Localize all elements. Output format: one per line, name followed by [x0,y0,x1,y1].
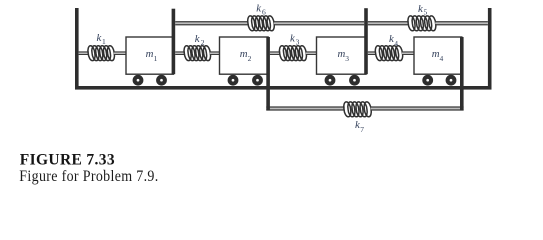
label m2 [240,48,252,63]
top rod from spring k6 to post m3 [274,22,365,25]
caption figure description [19,168,158,185]
mass m2 [220,37,269,74]
mass m3 [317,37,367,74]
bottom rod from spring k7 to post m4 [371,107,464,110]
wall left [75,8,79,90]
post on mass m3 (top frame attachment) [364,8,368,74]
caption figure number [20,152,115,169]
floor [75,86,492,90]
label m1 [146,48,158,63]
spring k3 connector left [270,52,280,55]
label k6 [256,3,266,17]
svg-text:1: 1 [154,54,158,63]
svg-text:6: 6 [262,8,266,17]
wall right [488,8,492,90]
svg-text:k: k [97,32,102,44]
post on mass m1 (top frame attachment) [172,9,176,75]
svg-text:k: k [389,33,394,45]
svg-text:Figure for Problem 7.9.: Figure for Problem 7.9. [19,168,158,185]
spring k6 [248,16,275,31]
spring k3 connector right [306,52,317,55]
mass m1 [126,37,173,74]
spring k1 connector left [79,52,89,55]
spring k4 connector right [402,52,414,55]
top rod from spring k5 to right wall [435,22,488,25]
mass m4 [414,37,462,74]
spring k4 connector left [368,52,376,55]
spring k3 [279,46,306,61]
svg-text:2: 2 [248,54,252,63]
svg-text:m: m [338,48,346,60]
spring k2 connector left [175,52,185,55]
svg-text:k: k [355,119,360,131]
spring k7 [344,102,372,117]
svg-text:2: 2 [201,38,205,47]
wheel left of m2 [228,75,239,86]
label k1 [97,32,107,46]
label k7 [355,119,364,134]
label k4 [389,33,398,48]
post on mass m2 (bottom frame attachment) [266,37,270,110]
wheel right of m2 [252,75,263,86]
label k5 [418,3,428,17]
svg-text:1: 1 [102,37,106,46]
svg-text:k: k [418,3,423,15]
spring k2 connector right [210,52,220,55]
bottom rod from post m2 to spring k7 [266,107,344,110]
svg-text:4: 4 [394,39,398,48]
svg-text:m: m [432,48,440,60]
svg-text:7: 7 [360,125,364,134]
wheel right of m4 [446,75,457,86]
wheel left of m3 [325,75,336,86]
svg-text:k: k [195,33,200,45]
label m4 [432,48,444,63]
svg-text:m: m [146,48,154,60]
spring k2 [184,46,211,61]
svg-text:4: 4 [440,54,444,63]
post on mass m4 (bottom frame attachment) [460,37,464,110]
svg-text:FIGURE 7.33: FIGURE 7.33 [20,152,115,169]
svg-text:3: 3 [296,38,300,47]
wheel right of m3 [349,75,360,86]
label m3 [338,48,350,63]
top rod from post m1 to spring k6 [175,22,248,25]
top rod from post m3 to spring k5 [368,22,409,25]
svg-text:m: m [240,48,248,60]
wheel right of m1 [156,75,167,86]
svg-text:k: k [256,3,261,15]
svg-text:3: 3 [345,54,349,63]
label k3 [290,33,300,47]
label k2 [195,33,205,47]
svg-text:k: k [290,33,295,45]
spring k5 [408,16,436,31]
svg-text:5: 5 [424,8,428,17]
wheel left of m4 [422,75,433,86]
spring k4 [375,46,402,61]
spring k1 connector right [114,52,126,55]
wheel left of m1 [133,75,144,86]
spring k1 [88,46,115,61]
